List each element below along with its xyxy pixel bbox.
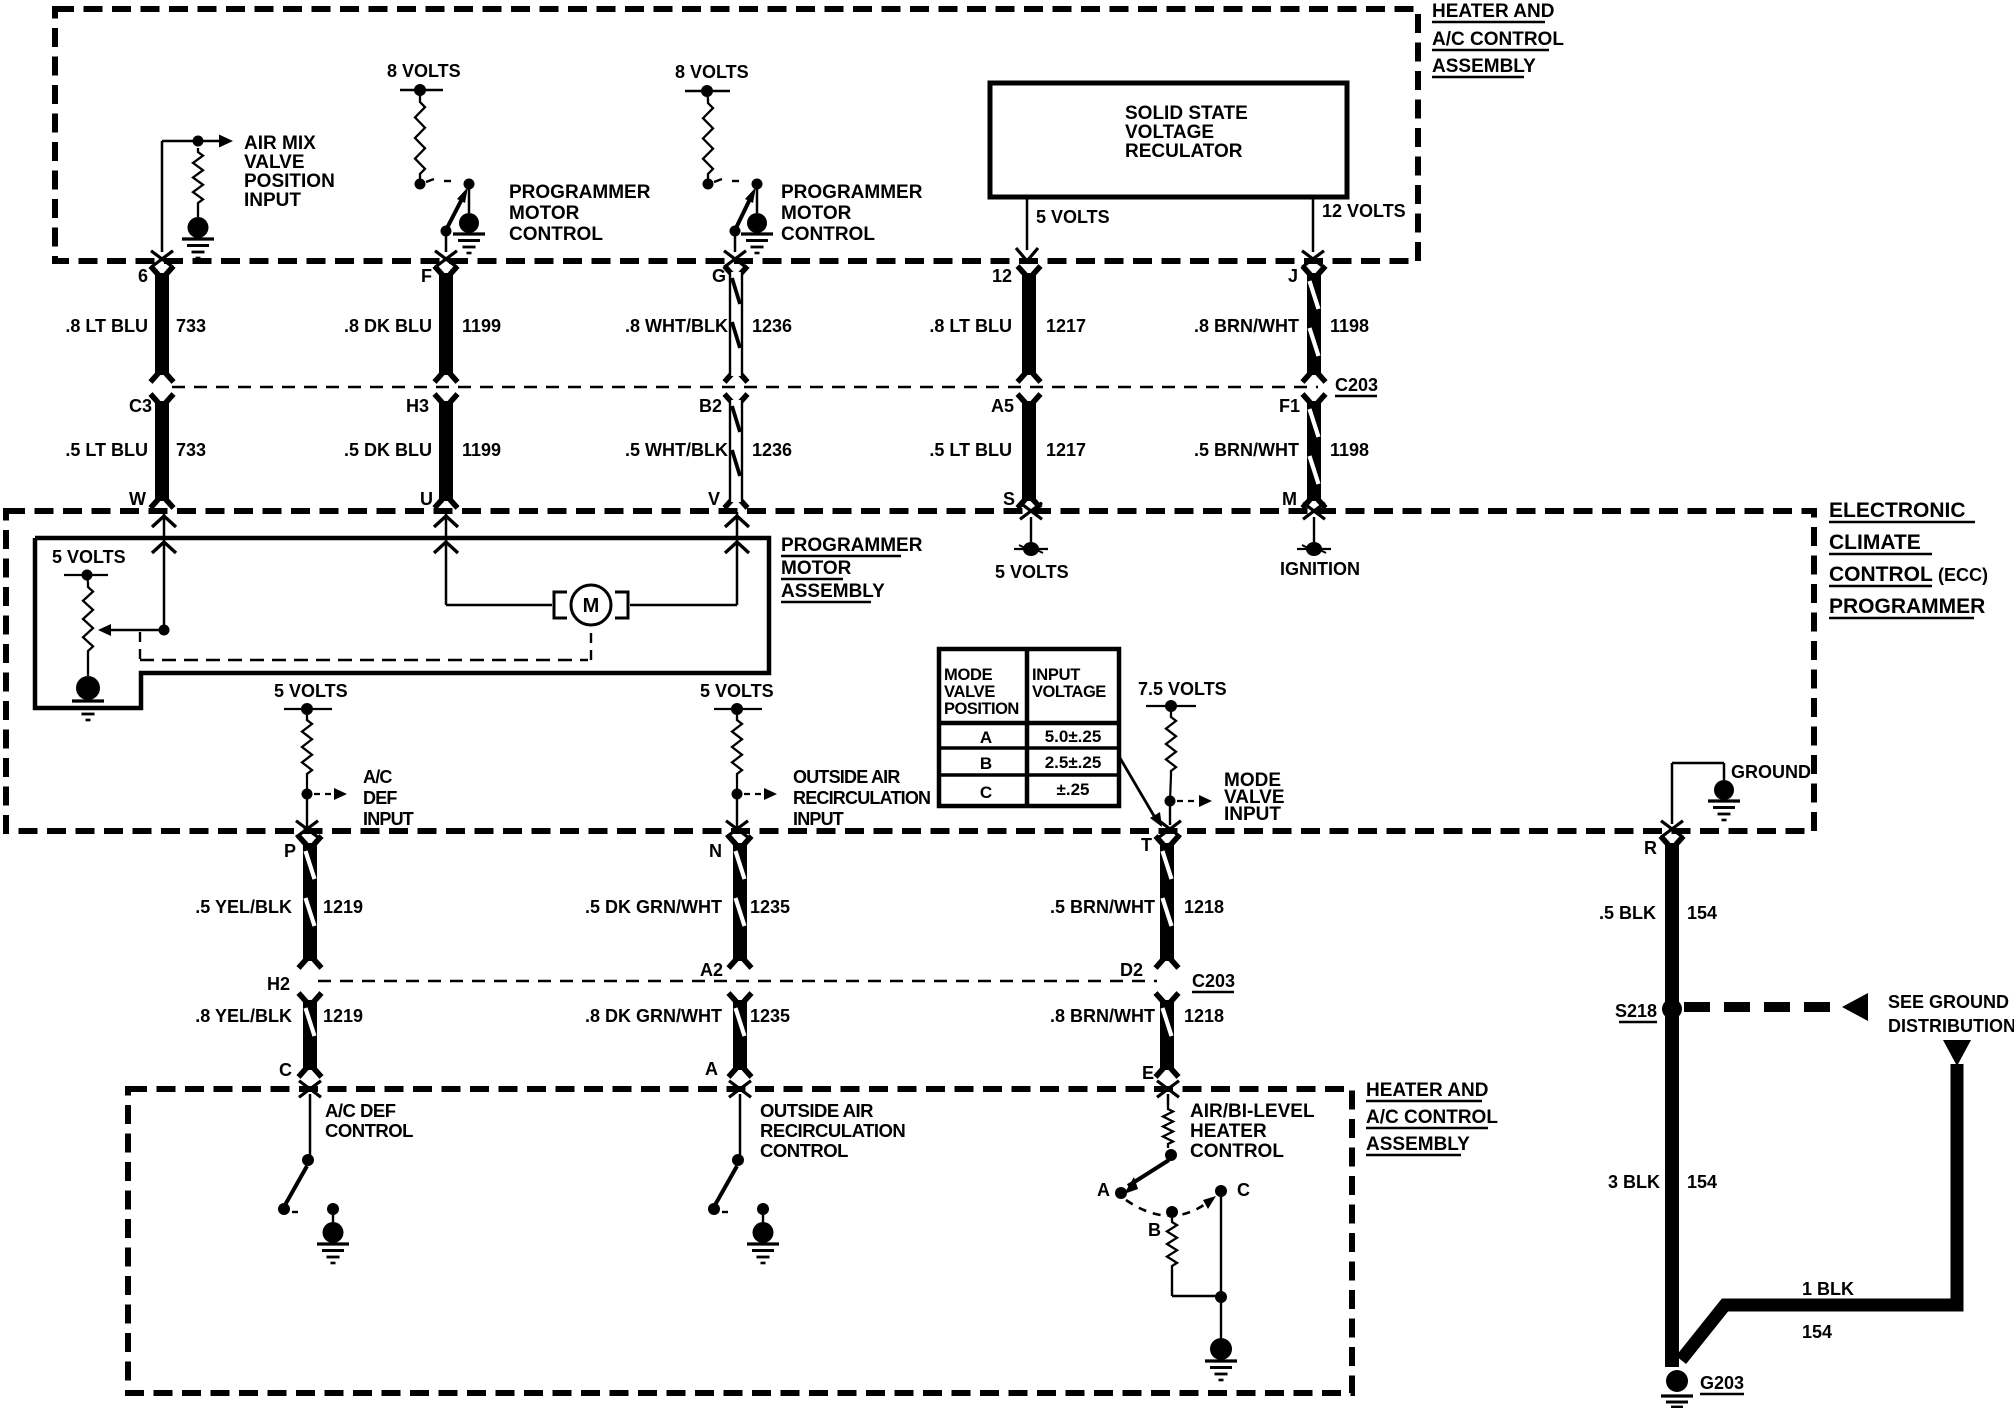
svg-text:A: A	[1097, 1180, 1110, 1200]
svg-text:.8 BRN/WHT: .8 BRN/WHT	[1194, 316, 1299, 336]
svg-text:B2: B2	[699, 396, 722, 416]
svg-text:RECIRCULATION: RECIRCULATION	[760, 1120, 905, 1141]
svg-text:HEATER: HEATER	[1190, 1121, 1267, 1142]
svg-text:H2: H2	[267, 974, 290, 994]
svg-text:B: B	[980, 754, 992, 773]
svg-text:HEATER AND: HEATER AND	[1366, 1080, 1488, 1101]
svg-text:.5 DK GRN/WHT: .5 DK GRN/WHT	[585, 897, 722, 917]
svg-text:.5 LT BLU: .5 LT BLU	[929, 440, 1012, 460]
svg-text:1199: 1199	[462, 316, 501, 336]
svg-text:SEE GROUND: SEE GROUND	[1888, 992, 2009, 1012]
svg-text:1217: 1217	[1046, 440, 1086, 460]
svg-text:ASSEMBLY: ASSEMBLY	[781, 581, 885, 602]
svg-text:P: P	[284, 841, 296, 861]
svg-text:.8 DK GRN/WHT: .8 DK GRN/WHT	[585, 1006, 722, 1026]
svg-text:IGNITION: IGNITION	[1280, 559, 1360, 579]
svg-text:CONTROL: CONTROL	[781, 224, 875, 245]
svg-text:C203: C203	[1335, 375, 1378, 395]
svg-text:5 VOLTS: 5 VOLTS	[700, 681, 774, 701]
svg-text:A/C DEF: A/C DEF	[325, 1100, 396, 1121]
svg-text:.5 YEL/BLK: .5 YEL/BLK	[195, 897, 292, 917]
svg-text:12: 12	[992, 266, 1012, 286]
svg-text:5 VOLTS: 5 VOLTS	[274, 681, 348, 701]
svg-text:CONTROL: CONTROL	[760, 1140, 848, 1161]
svg-text:A/C CONTROL: A/C CONTROL	[1366, 1107, 1498, 1128]
svg-text:2.5±.25: 2.5±.25	[1045, 753, 1102, 772]
svg-text:G203: G203	[1700, 1373, 1744, 1393]
svg-text:A: A	[705, 1059, 718, 1079]
svg-text:ELECTRONIC: ELECTRONIC	[1829, 499, 1966, 522]
svg-text:POSITION: POSITION	[944, 700, 1019, 718]
svg-text:A5: A5	[991, 396, 1014, 416]
svg-text:5 VOLTS: 5 VOLTS	[52, 547, 126, 567]
svg-text:(ECC): (ECC)	[1938, 565, 1988, 585]
svg-text:8 VOLTS: 8 VOLTS	[675, 62, 749, 82]
svg-text:POSITION: POSITION	[244, 171, 335, 192]
svg-text:154: 154	[1687, 1172, 1717, 1192]
svg-text:U: U	[420, 489, 433, 509]
svg-text:H3: H3	[406, 396, 429, 416]
svg-text:CLIMATE: CLIMATE	[1829, 531, 1921, 554]
svg-text:G: G	[712, 266, 726, 286]
svg-text:E: E	[1142, 1063, 1154, 1083]
svg-text:AIR/BI-LEVEL: AIR/BI-LEVEL	[1190, 1101, 1315, 1122]
svg-text:M: M	[583, 595, 600, 617]
svg-text:C: C	[980, 783, 992, 802]
svg-text:S: S	[1003, 489, 1015, 509]
svg-text:.5 LT BLU: .5 LT BLU	[65, 440, 148, 460]
svg-text:C: C	[1237, 1180, 1250, 1200]
svg-text:INPUT: INPUT	[363, 809, 414, 829]
svg-text:F: F	[421, 266, 432, 286]
svg-text:1218: 1218	[1184, 897, 1224, 917]
svg-text:±.25: ±.25	[1057, 780, 1090, 799]
svg-text:A2: A2	[700, 960, 723, 980]
svg-text:R: R	[1644, 838, 1657, 858]
svg-text:1219: 1219	[323, 1006, 363, 1026]
svg-text:1218: 1218	[1184, 1006, 1224, 1026]
svg-text:7.5 VOLTS: 7.5 VOLTS	[1138, 679, 1227, 699]
svg-text:1199: 1199	[462, 440, 501, 460]
svg-text:733: 733	[176, 316, 206, 336]
svg-text:8 VOLTS: 8 VOLTS	[387, 61, 461, 81]
svg-text:.8 YEL/BLK: .8 YEL/BLK	[195, 1006, 292, 1026]
svg-text:.5 WHT/BLK: .5 WHT/BLK	[625, 440, 728, 460]
svg-text:A/C: A/C	[363, 767, 392, 787]
svg-text:RECULATOR: RECULATOR	[1125, 141, 1243, 162]
svg-text:.8 LT BLU: .8 LT BLU	[65, 316, 148, 336]
svg-text:INPUT: INPUT	[1032, 666, 1080, 684]
svg-text:5.0±.25: 5.0±.25	[1045, 727, 1102, 746]
svg-text:CONTROL: CONTROL	[1190, 1141, 1284, 1162]
svg-text:3 BLK: 3 BLK	[1608, 1172, 1660, 1192]
svg-text:VOLTAGE: VOLTAGE	[1032, 683, 1106, 701]
svg-text:HEATER AND: HEATER AND	[1432, 1, 1554, 22]
svg-text:12 VOLTS: 12 VOLTS	[1322, 201, 1406, 221]
svg-text:OUTSIDE AIR: OUTSIDE AIR	[793, 767, 900, 787]
svg-text:.5 DK BLU: .5 DK BLU	[344, 440, 432, 460]
svg-text:S218: S218	[1615, 1001, 1657, 1021]
svg-text:C3: C3	[129, 396, 152, 416]
svg-text:VALVE: VALVE	[944, 683, 995, 701]
svg-text:1235: 1235	[750, 897, 790, 917]
svg-text:INPUT: INPUT	[244, 190, 301, 211]
svg-text:VALVE: VALVE	[244, 152, 305, 173]
svg-text:INPUT: INPUT	[1224, 804, 1281, 825]
svg-text:A/C CONTROL: A/C CONTROL	[1432, 29, 1564, 50]
svg-text:C203: C203	[1192, 971, 1235, 991]
svg-text:W: W	[129, 489, 146, 509]
svg-text:MOTOR: MOTOR	[781, 203, 852, 224]
svg-text:B: B	[1148, 1220, 1161, 1240]
svg-text:CONTROL: CONTROL	[509, 224, 603, 245]
svg-text:.8 BRN/WHT: .8 BRN/WHT	[1050, 1006, 1155, 1026]
svg-text:AIR MIX: AIR MIX	[244, 133, 316, 154]
svg-text:1198: 1198	[1330, 316, 1369, 336]
svg-text:MOTOR: MOTOR	[781, 558, 852, 579]
svg-text:M: M	[1282, 489, 1297, 509]
svg-text:F1: F1	[1279, 396, 1300, 416]
svg-text:CONTROL: CONTROL	[325, 1120, 413, 1141]
svg-text:5 VOLTS: 5 VOLTS	[995, 562, 1069, 582]
svg-text:.5 BLK: .5 BLK	[1599, 903, 1656, 923]
svg-text:MOTOR: MOTOR	[509, 203, 580, 224]
svg-text:T: T	[1141, 835, 1152, 855]
svg-text:1219: 1219	[323, 897, 363, 917]
svg-text:DEF: DEF	[363, 788, 397, 808]
svg-text:PROGRAMMER: PROGRAMMER	[781, 182, 923, 203]
svg-text:RECIRCULATION: RECIRCULATION	[793, 788, 930, 808]
svg-text:J: J	[1288, 266, 1298, 286]
svg-text:SOLID STATE: SOLID STATE	[1125, 103, 1248, 124]
svg-text:.8 LT BLU: .8 LT BLU	[929, 316, 1012, 336]
svg-text:5 VOLTS: 5 VOLTS	[1036, 207, 1110, 227]
svg-text:INPUT: INPUT	[793, 809, 844, 829]
svg-text:DISTRIBUTION: DISTRIBUTION	[1888, 1016, 2014, 1036]
svg-text:MODE: MODE	[944, 666, 993, 684]
svg-text:PROGRAMMER: PROGRAMMER	[781, 535, 923, 556]
svg-text:GROUND: GROUND	[1731, 762, 1811, 782]
svg-text:.8 WHT/BLK: .8 WHT/BLK	[625, 316, 728, 336]
svg-text:1198: 1198	[1330, 440, 1369, 460]
svg-text:1235: 1235	[750, 1006, 790, 1026]
svg-text:154: 154	[1687, 903, 1717, 923]
svg-text:V: V	[708, 489, 720, 509]
svg-text:733: 733	[176, 440, 206, 460]
svg-text:154: 154	[1802, 1322, 1832, 1342]
svg-text:OUTSIDE AIR: OUTSIDE AIR	[760, 1100, 873, 1121]
svg-text:1217: 1217	[1046, 316, 1086, 336]
svg-text:1236: 1236	[752, 440, 792, 460]
svg-text:.5 BRN/WHT: .5 BRN/WHT	[1194, 440, 1299, 460]
svg-text:CONTROL: CONTROL	[1829, 563, 1933, 586]
svg-text:N: N	[709, 841, 722, 861]
svg-text:.8 DK BLU: .8 DK BLU	[344, 316, 432, 336]
svg-text:PROGRAMMER: PROGRAMMER	[1829, 595, 1985, 618]
svg-text:1 BLK: 1 BLK	[1802, 1279, 1854, 1299]
svg-text:.5 BRN/WHT: .5 BRN/WHT	[1050, 897, 1155, 917]
svg-text:PROGRAMMER: PROGRAMMER	[509, 182, 651, 203]
svg-text:D2: D2	[1120, 960, 1143, 980]
svg-text:1236: 1236	[752, 316, 792, 336]
svg-text:C: C	[279, 1060, 292, 1080]
svg-text:VOLTAGE: VOLTAGE	[1125, 122, 1214, 143]
svg-text:ASSEMBLY: ASSEMBLY	[1366, 1134, 1470, 1155]
svg-text:6: 6	[138, 266, 148, 286]
svg-text:ASSEMBLY: ASSEMBLY	[1432, 56, 1536, 77]
svg-text:A: A	[980, 728, 992, 747]
